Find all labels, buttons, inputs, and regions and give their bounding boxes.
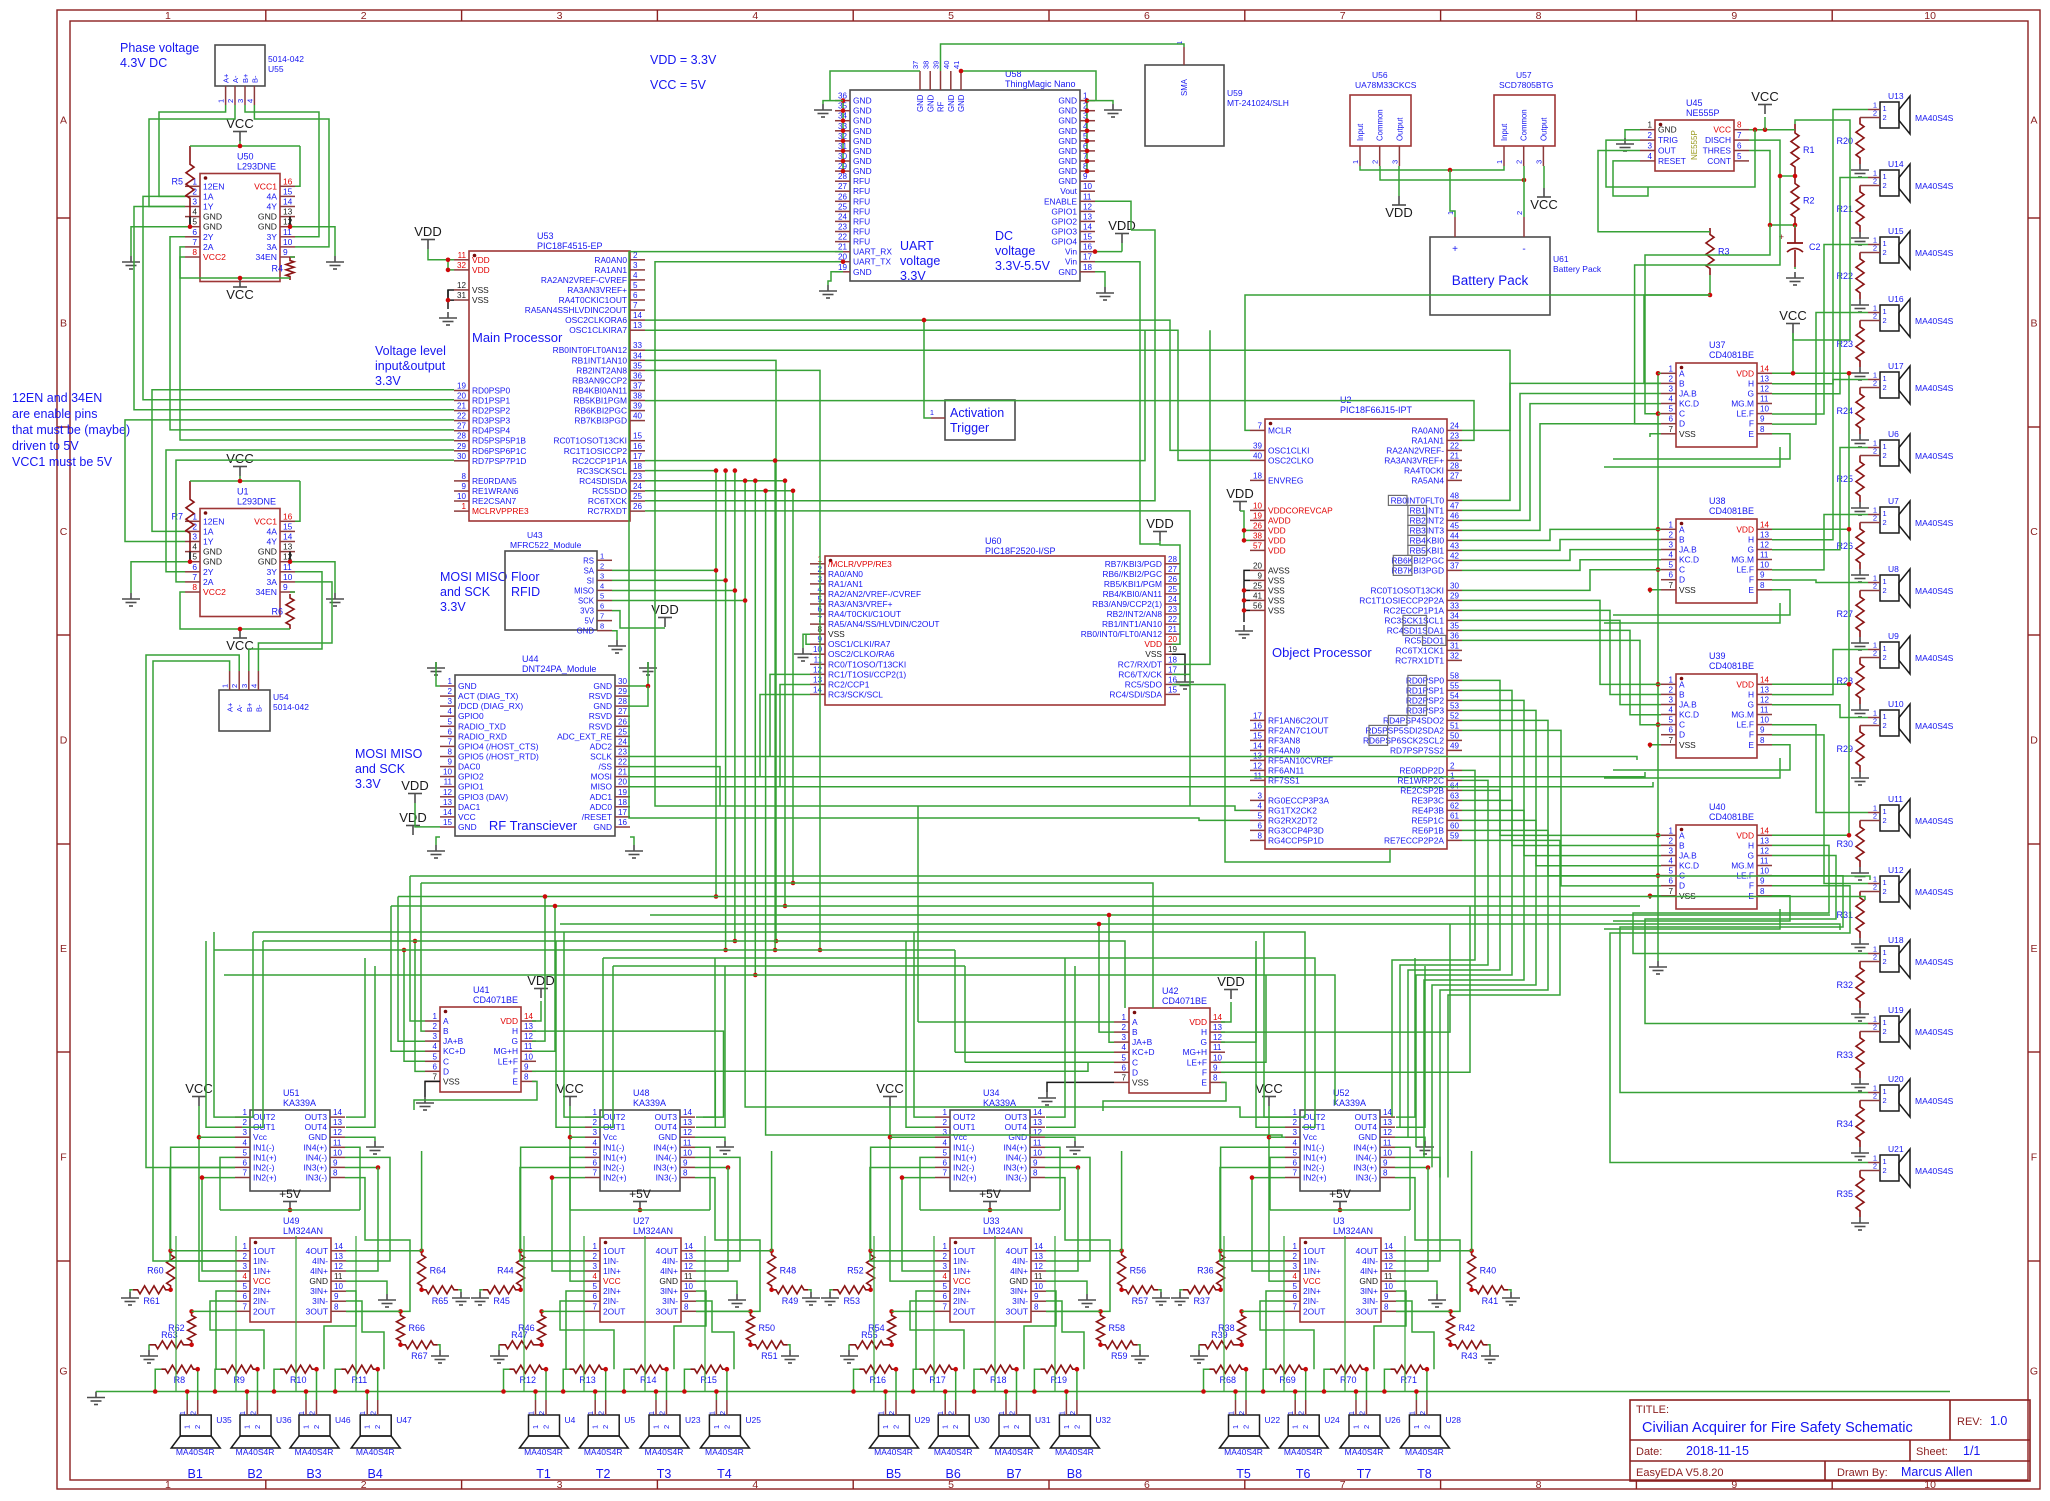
svg-text:1: 1: [1883, 374, 1887, 383]
wire u2 to cd4081: [1462, 610, 1661, 694]
svg-text:A: A: [1679, 679, 1685, 689]
svg-text:14: 14: [333, 1108, 343, 1117]
junction: [188, 224, 193, 229]
wire u2 re pin down: [1440, 830, 1548, 1177]
wire: [1045, 1137, 1075, 1141]
wire speaker pin2 to resistor: [1860, 117, 1868, 119]
wire: [1395, 1178, 1460, 1312]
svg-text:VSS: VSS: [443, 1076, 460, 1086]
ground: [716, 1141, 734, 1154]
svg-text:GND: GND: [203, 557, 222, 567]
svg-text:30: 30: [618, 677, 628, 686]
junction: [664, 1367, 669, 1372]
svg-text:RF1AN6C2OUT: RF1AN6C2OUT: [1268, 715, 1329, 725]
svg-text:1: 1: [178, 1411, 187, 1415]
wire: [645, 471, 716, 897]
svg-text:4A: 4A: [266, 526, 277, 536]
svg-text:9: 9: [1033, 1158, 1038, 1167]
svg-text:RFU: RFU: [853, 196, 870, 206]
wire: [570, 1136, 585, 1138]
junction: [1847, 682, 1852, 687]
speaker U35 MA40S4R (B1): [171, 1400, 232, 1481]
svg-text:VDD: VDD: [1146, 516, 1173, 531]
svg-text:GPIO4 (/HOST_CTS): GPIO4 (/HOST_CTS): [458, 741, 539, 751]
module U44 DNT24PA_Module: [440, 654, 630, 836]
wire resistor left to bus: [624, 1369, 630, 1391]
wire: [1095, 272, 1105, 287]
svg-text:51: 51: [1450, 721, 1460, 730]
wire: [1180, 1290, 1183, 1292]
svg-text:4: 4: [1292, 1272, 1297, 1281]
svg-text:U53: U53: [537, 231, 554, 241]
ground: [378, 1294, 396, 1307]
svg-text:LE.F: LE.F: [1736, 409, 1754, 419]
wire into U42 JA+B: [1109, 915, 1114, 1042]
svg-text:16: 16: [1083, 243, 1093, 252]
svg-text:GPIO2: GPIO2: [1051, 216, 1077, 226]
svg-text:VSS: VSS: [828, 629, 845, 639]
ground: [639, 662, 657, 675]
wire: [1395, 1157, 1440, 1261]
svg-text:59: 59: [1450, 831, 1460, 840]
wire: [1380, 166, 1524, 180]
svg-text:F: F: [1749, 575, 1754, 585]
wire: [870, 1168, 935, 1262]
resistor R26: [1856, 523, 1864, 570]
svg-text:15: 15: [283, 521, 293, 531]
junction: [238, 479, 243, 484]
svg-text:23: 23: [1168, 605, 1178, 614]
junction: [841, 108, 846, 113]
svg-text:A-: A-: [235, 704, 244, 712]
svg-text:56: 56: [1253, 601, 1263, 610]
svg-text:GND: GND: [853, 106, 872, 116]
svg-text:B: B: [60, 318, 67, 330]
wire: [532, 1001, 541, 1021]
svg-text:12: 12: [1760, 696, 1770, 705]
svg-text:12: 12: [813, 665, 823, 674]
resistor R31: [1856, 892, 1864, 939]
wire: [916, 1291, 935, 1369]
svg-text:GND: GND: [1009, 1276, 1028, 1286]
svg-text:33: 33: [1450, 601, 1460, 610]
wire into U41 C: [404, 950, 425, 1061]
svg-text:2Y: 2Y: [203, 232, 214, 242]
svg-text:26: 26: [1253, 521, 1263, 530]
junction: [446, 298, 451, 303]
svg-text:VDD: VDD: [1144, 639, 1162, 649]
svg-text:B8: B8: [1067, 1467, 1082, 1481]
svg-text:1: 1: [586, 1411, 595, 1415]
svg-text:IN1(+): IN1(+): [953, 1152, 977, 1162]
svg-text:16: 16: [283, 176, 293, 186]
wire speaker pin2 to resistor: [726, 1369, 728, 1400]
junction: [603, 1367, 608, 1372]
op-amp U27 LM324AN: [585, 1216, 696, 1322]
svg-text:40: 40: [1253, 451, 1263, 460]
junction: [725, 1367, 730, 1372]
wire: [696, 1310, 751, 1312]
svg-text:4: 4: [1647, 152, 1652, 161]
ground: [1171, 1292, 1189, 1305]
ground: [1851, 1217, 1869, 1230]
svg-text:4: 4: [242, 1138, 247, 1147]
svg-text:13: 13: [443, 798, 453, 807]
junction: [1085, 169, 1090, 174]
svg-text:16: 16: [1253, 721, 1263, 730]
svg-text:R9: R9: [233, 1375, 245, 1385]
svg-text:26: 26: [838, 192, 848, 201]
op-amp U49 LM324AN: [235, 1216, 346, 1322]
svg-text:MA40S4S: MA40S4S: [1915, 181, 1954, 191]
svg-text:2: 2: [1450, 761, 1455, 770]
junction: [213, 1389, 218, 1394]
svg-text:IN1(+): IN1(+): [1303, 1152, 1327, 1162]
svg-text:1: 1: [1647, 121, 1652, 130]
wire speaker pin2 to resistor: [197, 1369, 199, 1400]
junction: [593, 1389, 598, 1394]
svg-text:1/1: 1/1: [1963, 1444, 1980, 1458]
svg-text:2: 2: [1668, 836, 1673, 845]
svg-text:3: 3: [633, 261, 638, 270]
svg-text:KC+D: KC+D: [1132, 1047, 1155, 1057]
svg-text:22: 22: [1450, 441, 1460, 450]
speaker U18 MA40S4S: [1868, 935, 1954, 978]
svg-text:U20: U20: [1888, 1074, 1904, 1084]
svg-text:31: 31: [457, 291, 467, 300]
svg-text:2: 2: [1883, 248, 1887, 257]
svg-text:3: 3: [592, 1128, 597, 1137]
svg-text:2: 2: [432, 1022, 437, 1031]
wire: [754, 481, 756, 975]
svg-text:9: 9: [283, 582, 288, 592]
svg-text:12: 12: [333, 1128, 343, 1137]
resistor R46: [538, 1311, 546, 1344]
wire: [180, 592, 290, 629]
svg-text:VCC2: VCC2: [203, 587, 226, 597]
svg-text:2A: 2A: [203, 577, 214, 587]
svg-text:R16: R16: [870, 1375, 887, 1385]
svg-text:B7: B7: [1006, 1467, 1021, 1481]
wire speaker pin1 to bus: [1294, 1392, 1296, 1401]
junction: [1218, 1249, 1223, 1254]
wire u2 to cd4081: [1462, 730, 1661, 886]
wire: [1095, 262, 1140, 351]
wire speaker pin2 to resistor: [1860, 725, 1868, 727]
wire gnd bracket: [189, 552, 191, 562]
svg-text:GPIO0: GPIO0: [458, 711, 484, 721]
resistor R63: [149, 1341, 190, 1349]
resistor R55: [849, 1341, 890, 1349]
wire: [570, 1209, 710, 1211]
IC U38 CD4081BE: [1661, 496, 1772, 603]
svg-text:2: 2: [1873, 649, 1877, 658]
wire: [1095, 201, 1131, 230]
svg-text:RD3PSP3: RD3PSP3: [472, 416, 511, 426]
wire: [760, 695, 810, 777]
svg-text:GND: GND: [203, 222, 222, 232]
wire u2 to cd4081: [1462, 640, 1661, 724]
junction: [1085, 129, 1090, 134]
svg-text:A: A: [1679, 368, 1685, 378]
svg-text:2: 2: [951, 1425, 960, 1429]
svg-text:9: 9: [1383, 1158, 1388, 1167]
svg-text:2: 2: [1873, 1092, 1877, 1101]
svg-text:9: 9: [283, 247, 288, 257]
wire cd4081 out to speaker: [1633, 845, 1868, 953]
junction: [419, 1249, 424, 1254]
wire vss: [1650, 745, 1661, 748]
svg-text:RG4CCP5P1D: RG4CCP5P1D: [1268, 835, 1324, 845]
junction: [365, 1389, 370, 1394]
wire: [192, 1310, 235, 1312]
junction: [1218, 1288, 1223, 1293]
svg-text:R67: R67: [411, 1351, 428, 1361]
svg-text:U1: U1: [237, 487, 249, 497]
resistor R60: [167, 1251, 175, 1290]
svg-text:13: 13: [1760, 374, 1770, 383]
wire cd4081 out to speaker: [1772, 580, 1868, 583]
svg-text:36: 36: [1450, 631, 1460, 640]
activation trigger box: [930, 400, 1015, 440]
wire u2 to cd4081: [1462, 690, 1661, 845]
svg-text:ADC_EXT_RE: ADC_EXT_RE: [557, 731, 612, 741]
wire: [674, 1291, 706, 1369]
svg-text:MOSI MISO: MOSI MISO: [355, 747, 423, 761]
wire: [1046, 1250, 1122, 1252]
wire: [245, 105, 319, 237]
wire u2 to cd4081: [1462, 383, 1661, 500]
wire cd4081 out to speaker: [1772, 245, 1868, 415]
svg-text:MA40S4R: MA40S4R: [995, 1447, 1034, 1457]
wire: [202, 1178, 235, 1271]
junction: [714, 1389, 719, 1394]
wire: [655, 262, 1250, 811]
resistor R9: [221, 1365, 258, 1373]
svg-text:2OUT: 2OUT: [953, 1306, 975, 1316]
speaker U36 MA40S4R (B2): [231, 1400, 292, 1481]
svg-text:1: 1: [238, 1411, 247, 1415]
svg-text:UART: UART: [900, 239, 934, 253]
wire: [1270, 1209, 1410, 1211]
battery pack U61: [1430, 211, 1602, 315]
wire: [1658, 372, 1661, 374]
wire u2 to cd4081: [1462, 424, 1661, 531]
svg-text:MA40S4R: MA40S4R: [934, 1447, 973, 1457]
svg-text:RB6KBI2PGC: RB6KBI2PGC: [1391, 555, 1444, 565]
svg-text:8: 8: [192, 247, 197, 257]
svg-text:U10: U10: [1888, 699, 1904, 709]
wire: [166, 450, 454, 572]
wire: [346, 1168, 378, 1272]
svg-text:4IN-: 4IN-: [1012, 1256, 1028, 1266]
svg-text:U60: U60: [985, 536, 1002, 546]
svg-text:3A: 3A: [266, 242, 277, 252]
junction: [1793, 174, 1798, 179]
svg-text:GPIO4: GPIO4: [1051, 237, 1077, 247]
svg-text:RB0/INT0/FLT0/AN12: RB0/INT0/FLT0/AN12: [1081, 629, 1163, 639]
wire: [414, 1081, 537, 1110]
wire: [1103, 1082, 1226, 1111]
svg-text:3: 3: [600, 571, 604, 580]
svg-text:U22: U22: [1265, 1415, 1281, 1425]
svg-text:16: 16: [1168, 675, 1178, 684]
svg-text:2: 2: [361, 10, 367, 22]
svg-text:L293DNE: L293DNE: [237, 497, 276, 507]
svg-text:MG+H: MG+H: [494, 1046, 518, 1056]
svg-text:MFRC522_Module: MFRC522_Module: [510, 540, 582, 550]
svg-text:U49: U49: [283, 1216, 300, 1226]
wire speaker pin2 to resistor: [545, 1369, 547, 1400]
resistor R12: [510, 1365, 547, 1373]
svg-text:9: 9: [1384, 1292, 1389, 1301]
wire: [1450, 170, 1455, 217]
svg-text:9: 9: [1760, 877, 1765, 886]
svg-text:8: 8: [1760, 425, 1765, 434]
wire vss stub: [1244, 579, 1250, 581]
svg-text:and SCK: and SCK: [440, 585, 491, 599]
svg-text:RFU: RFU: [853, 237, 870, 247]
junction: [1097, 922, 1102, 927]
wire vertical to bus: [873, 1236, 875, 1392]
wire speaker pin2 to resistor: [1860, 320, 1868, 322]
junction: [1293, 1389, 1298, 1394]
svg-text:MA40S4S: MA40S4S: [1915, 248, 1954, 258]
ground: [140, 1350, 158, 1363]
wire: [1198, 1345, 1200, 1350]
wire u2 to cd4081: [1462, 720, 1661, 875]
svg-text:29: 29: [457, 442, 467, 451]
svg-text:U12: U12: [1888, 865, 1904, 875]
wire: [1221, 1250, 1285, 1252]
svg-text:1: 1: [1883, 239, 1887, 248]
svg-text:13: 13: [1033, 1118, 1043, 1127]
svg-text:5: 5: [1668, 405, 1673, 414]
svg-text:RB3AN9CCP2: RB3AN9CCP2: [572, 375, 627, 385]
wire: [1087, 101, 1113, 104]
svg-text:GND: GND: [853, 126, 872, 136]
svg-text:2: 2: [601, 1425, 610, 1429]
svg-text:1: 1: [1057, 1411, 1066, 1415]
svg-text:OUT3: OUT3: [1005, 1112, 1028, 1122]
svg-text:2: 2: [1362, 1425, 1371, 1429]
svg-text:-: -: [1522, 244, 1525, 255]
svg-text:U34: U34: [983, 1088, 1000, 1098]
junction: [398, 1343, 403, 1348]
svg-text:23: 23: [633, 472, 643, 481]
svg-text:VCC1 must be 5V: VCC1 must be 5V: [12, 455, 113, 469]
resistor R3: [1706, 228, 1714, 275]
resistor R1: [1791, 124, 1799, 176]
svg-text:22: 22: [1168, 615, 1178, 624]
wire speaker pin2 to resistor: [1366, 1369, 1368, 1400]
junction: [883, 1389, 888, 1394]
junction: [1426, 1165, 1431, 1170]
svg-text:R34: R34: [1836, 1119, 1853, 1129]
svg-text:4: 4: [600, 581, 604, 590]
svg-text:IN4(+): IN4(+): [653, 1142, 677, 1152]
svg-text:18: 18: [618, 798, 628, 807]
svg-text:RC5SDO: RC5SDO: [592, 486, 627, 496]
speaker U25 MA40S4R (T4): [700, 1400, 761, 1481]
svg-text:R33: R33: [1836, 1050, 1853, 1060]
wire: [961, 71, 1096, 101]
svg-text:5: 5: [447, 717, 452, 726]
svg-text:2: 2: [1883, 816, 1887, 825]
wire: [556, 941, 585, 1127]
svg-text:7: 7: [1292, 1302, 1297, 1311]
svg-text:4IN+: 4IN+: [310, 1266, 328, 1276]
svg-text:F: F: [2031, 1152, 2037, 1164]
wire: [1658, 569, 1661, 571]
wire u2 to cd4081: [1462, 700, 1661, 855]
svg-text:U59: U59: [1227, 88, 1243, 98]
speaker U19 MA40S4S: [1868, 1005, 1954, 1048]
svg-text:1Y: 1Y: [203, 202, 214, 212]
junction: [1768, 223, 1773, 228]
svg-text:VCC2: VCC2: [203, 252, 226, 262]
wire: [612, 600, 745, 602]
junction: [1242, 538, 1247, 543]
svg-text:G: G: [511, 1036, 518, 1046]
wire: [1172, 685, 1390, 863]
svg-text:2018-11-15: 2018-11-15: [1686, 1444, 1749, 1458]
svg-text:U37: U37: [1709, 340, 1726, 350]
junction: [272, 1389, 277, 1394]
resistor R7: [186, 481, 194, 552]
svg-text:10: 10: [443, 768, 453, 777]
svg-text:G: G: [2030, 1366, 2038, 1378]
svg-text:RADIO_RXD: RADIO_RXD: [458, 731, 507, 741]
wire vss: [1243, 580, 1245, 622]
svg-text:2: 2: [1883, 721, 1887, 730]
wire: [1121, 1151, 1123, 1251]
svg-text:7: 7: [1340, 10, 1346, 22]
svg-text:2: 2: [1292, 1118, 1297, 1127]
svg-text:LE+F: LE+F: [498, 1056, 518, 1066]
svg-text:41: 41: [1253, 591, 1263, 600]
svg-text:R32: R32: [1836, 980, 1853, 990]
svg-text:1: 1: [1347, 1411, 1356, 1415]
svg-text:GND: GND: [1359, 1276, 1378, 1286]
junction: [376, 1165, 381, 1170]
svg-text:A: A: [1679, 524, 1685, 534]
svg-text:1OUT: 1OUT: [253, 1246, 275, 1256]
svg-text:1: 1: [941, 1425, 950, 1429]
svg-text:4: 4: [1668, 395, 1673, 404]
wire u2 re pin down: [1432, 820, 1536, 1167]
svg-text:8: 8: [1384, 1302, 1389, 1311]
wire speaker pin1 to bus: [594, 1392, 596, 1401]
svg-text:10: 10: [283, 237, 293, 247]
wire bundle: [650, 914, 1830, 916]
svg-text:U51: U51: [283, 1088, 300, 1098]
svg-text:RA1AN1: RA1AN1: [1411, 435, 1444, 445]
wire gnd bracket: [189, 217, 191, 227]
svg-text:/SS: /SS: [599, 762, 613, 772]
svg-text:B: B: [1132, 1027, 1138, 1037]
wire speaker pin2 to resistor: [1426, 1369, 1428, 1400]
svg-text:JA.B: JA.B: [1679, 700, 1697, 710]
svg-text:SCLK: SCLK: [590, 752, 612, 762]
svg-text:UART_TX: UART_TX: [853, 257, 891, 267]
svg-text:R64: R64: [430, 1265, 447, 1275]
svg-text:7: 7: [192, 237, 197, 247]
svg-text:VSS: VSS: [1132, 1077, 1149, 1087]
svg-text:RD0PSP0: RD0PSP0: [472, 386, 511, 396]
svg-text:12: 12: [1253, 761, 1263, 770]
junction: [714, 568, 719, 573]
